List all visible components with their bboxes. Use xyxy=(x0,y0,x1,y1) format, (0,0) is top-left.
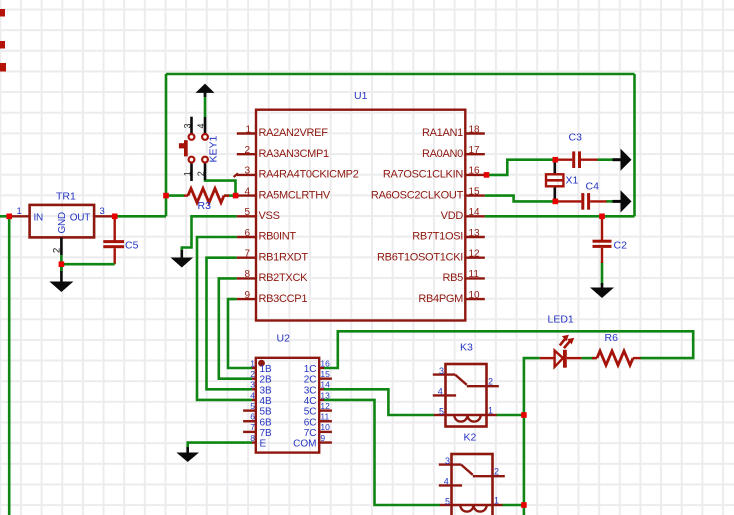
wire R3 row xyxy=(166,194,237,197)
U2 pin 1 input 1B xyxy=(250,358,272,375)
svg-text:1: 1 xyxy=(17,206,22,217)
svg-text:KEY1: KEY1 xyxy=(208,135,220,162)
U2 pin 12 output 5C xyxy=(304,401,332,418)
wire rail to LED xyxy=(524,358,540,515)
U1 pin 7 xyxy=(237,249,309,264)
ground symbol at VSS xyxy=(171,250,194,268)
svg-text:4: 4 xyxy=(444,477,449,487)
svg-text:4: 4 xyxy=(244,186,250,197)
svg-text:2: 2 xyxy=(494,467,499,477)
junction at K2 pin1 xyxy=(521,502,527,508)
svg-text:5: 5 xyxy=(439,407,444,417)
svg-text:2: 2 xyxy=(488,377,493,387)
svg-text:TR1: TR1 xyxy=(56,191,76,203)
svg-text:9: 9 xyxy=(244,290,250,301)
svg-text:8: 8 xyxy=(244,269,250,280)
supply arrow VCC at KEY1 xyxy=(196,84,215,117)
LED LED1 xyxy=(540,314,582,368)
U2 pin 6 input 6B xyxy=(243,412,272,429)
svg-text:2: 2 xyxy=(196,171,206,176)
U1 pin 10 xyxy=(418,290,484,305)
U1 pin 16 xyxy=(383,166,485,181)
svg-text:RA2AN2VREF: RA2AN2VREF xyxy=(259,127,329,139)
wire pin16 to oscillator row xyxy=(485,160,556,175)
svg-text:U1: U1 xyxy=(354,90,368,102)
svg-text:RB5: RB5 xyxy=(443,272,464,284)
svg-text:RA3AN3CMP1: RA3AN3CMP1 xyxy=(259,148,330,160)
svg-text:U2: U2 xyxy=(277,333,291,345)
svg-text:14: 14 xyxy=(469,207,481,218)
U1 pin 4 xyxy=(237,186,331,201)
wire LED R6 middle xyxy=(581,357,595,360)
svg-text:2: 2 xyxy=(244,145,250,156)
svg-text:RB6T1OSOT1CKI: RB6T1OSOT1CKI xyxy=(377,251,463,263)
svg-text:4: 4 xyxy=(196,123,206,128)
crystal X1 xyxy=(546,160,579,202)
wire VCC right rail vertical xyxy=(633,74,636,216)
svg-text:16: 16 xyxy=(320,358,330,368)
junction at TR1 ground xyxy=(59,261,65,267)
svg-text:IN: IN xyxy=(34,213,43,224)
svg-text:1: 1 xyxy=(245,124,251,135)
U2 pin 5 input 5B xyxy=(243,401,272,418)
wire RB0INT pin6 to U2 4B xyxy=(197,237,252,400)
svg-text:RA6OSC2CLKOUT: RA6OSC2CLKOUT xyxy=(371,189,464,201)
capacitor C3 xyxy=(556,132,598,169)
svg-text:5: 5 xyxy=(250,401,255,411)
svg-text:1: 1 xyxy=(250,358,255,368)
wire C4 to ground arrow xyxy=(606,200,614,203)
svg-text:6: 6 xyxy=(244,228,250,239)
svg-text:7C: 7C xyxy=(304,428,317,439)
junction at X1 top xyxy=(553,157,559,163)
wire U2 E pin to ground xyxy=(188,443,252,449)
svg-text:5C: 5C xyxy=(304,407,317,418)
ground symbol at U2 E xyxy=(176,447,199,462)
U1 pin 8 xyxy=(237,269,308,284)
junction at TR1 output C5 xyxy=(112,214,118,220)
svg-text:7B: 7B xyxy=(260,428,273,439)
U2 pin 8 enable E xyxy=(250,433,266,450)
svg-text:C2: C2 xyxy=(614,240,628,252)
wire KEY1 pin2 to pin4 junction xyxy=(205,180,236,196)
U2 pin 13 output 4C xyxy=(304,390,330,407)
svg-text:GND: GND xyxy=(57,212,68,233)
svg-text:RB2TXCK: RB2TXCK xyxy=(259,272,309,284)
ground arrow right at C3 xyxy=(613,149,632,171)
junction at VDD C2 xyxy=(599,214,605,220)
wire C3 to ground arrow xyxy=(597,158,614,161)
wire C2 bottom to ground xyxy=(601,262,604,285)
svg-text:11: 11 xyxy=(469,269,480,280)
wire VCC left rail vertical xyxy=(165,74,168,216)
wire U2 4C to K2 coil xyxy=(324,400,440,505)
svg-text:15: 15 xyxy=(320,369,330,379)
svg-text:4: 4 xyxy=(438,387,443,397)
U1 pin 11 xyxy=(443,269,485,284)
svg-text:13: 13 xyxy=(320,390,330,400)
edge fragment top-left 2 xyxy=(0,41,5,49)
U1 pin 13 xyxy=(412,228,485,243)
wire VDD pin14 horizontal xyxy=(485,215,635,218)
ground symbol at TR1 xyxy=(49,266,73,292)
wire TR1 input left xyxy=(0,215,10,218)
junction at R3 left xyxy=(163,193,169,199)
wire RB2TXCK pin8 to U2 2B xyxy=(219,278,252,378)
svg-text:3B: 3B xyxy=(260,385,273,396)
svg-text:C3: C3 xyxy=(569,132,583,144)
U1 pin 1 xyxy=(237,124,328,139)
svg-text:12: 12 xyxy=(469,249,481,260)
svg-text:2B: 2B xyxy=(260,375,273,386)
svg-text:1C: 1C xyxy=(304,364,317,375)
capacitor C5 xyxy=(61,217,138,264)
svg-text:5: 5 xyxy=(445,496,450,506)
wire U2 1C to R6 loop xyxy=(324,331,693,368)
svg-text:K3: K3 xyxy=(460,342,473,354)
wire VSS pin5 to ground xyxy=(182,216,237,251)
svg-text:3: 3 xyxy=(100,206,105,217)
svg-text:RB0INT: RB0INT xyxy=(259,231,297,243)
svg-text:2C: 2C xyxy=(304,375,317,386)
svg-text:X1: X1 xyxy=(566,175,579,187)
svg-text:7: 7 xyxy=(244,249,250,260)
U2 pin 7 input 7B xyxy=(243,422,272,439)
wire RB1RXDT pin7 to U2 3B xyxy=(207,258,253,390)
svg-text:7: 7 xyxy=(250,422,255,432)
svg-text:RB7T1OSI: RB7T1OSI xyxy=(412,231,463,243)
wire RB3CCP1 pin9 to U2 1B xyxy=(228,299,252,368)
wire K2 pin1 to rail xyxy=(502,504,524,507)
edge fragment top-left 1 xyxy=(0,9,5,17)
svg-text:RA7OSC1CLKIN: RA7OSC1CLKIN xyxy=(383,169,464,181)
svg-text:3: 3 xyxy=(445,456,450,466)
svg-text:LED1: LED1 xyxy=(548,314,574,326)
wire TR1 out to rail xyxy=(114,215,167,218)
svg-text:10: 10 xyxy=(469,290,481,301)
U1 pin 18 xyxy=(422,124,485,139)
junction at R3 right pin4 xyxy=(233,193,239,199)
wire VCC top rail horizontal xyxy=(166,73,635,76)
svg-text:6B: 6B xyxy=(260,417,273,428)
svg-text:K2: K2 xyxy=(464,432,477,444)
svg-text:1: 1 xyxy=(494,496,499,506)
svg-text:C4: C4 xyxy=(586,181,600,193)
U2 pin 10 output 7C xyxy=(304,422,332,439)
microcontroller U1 xyxy=(256,90,465,321)
svg-text:4C: 4C xyxy=(304,396,317,407)
svg-text:6: 6 xyxy=(250,412,255,422)
U1 pin 12 xyxy=(377,249,485,264)
ground arrow right at C4 xyxy=(613,190,632,212)
svg-text:10: 10 xyxy=(320,422,330,432)
svg-text:5: 5 xyxy=(244,207,250,218)
U2 pin 11 output 6C xyxy=(304,412,332,429)
svg-text:RB4PGM: RB4PGM xyxy=(418,293,463,305)
resistor R3 xyxy=(184,189,229,213)
svg-text:VDD: VDD xyxy=(441,210,464,222)
U2 pin 3 input 3B xyxy=(250,380,272,397)
svg-text:RA0AN0: RA0AN0 xyxy=(422,148,463,160)
junction at K3 pin1 xyxy=(521,412,527,418)
driver U2 xyxy=(256,333,319,453)
svg-text:3: 3 xyxy=(182,123,192,128)
svg-text:17: 17 xyxy=(469,145,481,156)
svg-text:4B: 4B xyxy=(260,396,273,407)
svg-text:18: 18 xyxy=(469,124,481,135)
U1 pin 17 xyxy=(422,145,485,160)
svg-text:E: E xyxy=(260,439,267,450)
svg-text:OUT: OUT xyxy=(70,213,90,224)
wire left edge vertical down xyxy=(8,216,11,515)
svg-text:RA5MCLRTHV: RA5MCLRTHV xyxy=(259,189,331,201)
svg-text:C5: C5 xyxy=(125,240,139,252)
svg-text:4: 4 xyxy=(250,390,255,400)
capacitor C4 xyxy=(556,181,607,210)
svg-text:6C: 6C xyxy=(304,417,317,428)
push button KEY1 xyxy=(179,117,220,181)
svg-text:RB1RXDT: RB1RXDT xyxy=(259,251,309,263)
svg-text:COM: COM xyxy=(293,439,316,450)
U1 pin 9 xyxy=(237,290,308,305)
U1 pin 3 xyxy=(234,166,359,181)
U2 pin 2 input 2B xyxy=(250,369,272,386)
ground symbol at C2 xyxy=(590,283,614,298)
capacitor C2 xyxy=(593,217,628,263)
junction at TR1 input xyxy=(6,214,12,220)
edge fragment top-left 3 xyxy=(0,63,6,72)
svg-text:RA1AN1: RA1AN1 xyxy=(422,127,463,139)
U2 pin 9 common COM xyxy=(293,433,332,450)
U2 pin 16 output 1C xyxy=(304,358,330,375)
svg-text:VSS: VSS xyxy=(259,210,280,222)
svg-text:3: 3 xyxy=(439,366,444,376)
svg-text:5B: 5B xyxy=(260,407,273,418)
svg-text:3C: 3C xyxy=(304,385,317,396)
voltage regulator TR1 xyxy=(9,191,113,272)
svg-text:3: 3 xyxy=(244,166,250,177)
svg-text:2: 2 xyxy=(52,248,63,253)
svg-text:1: 1 xyxy=(488,406,493,416)
svg-text:9: 9 xyxy=(320,433,325,443)
wire U2 3C to K3 coil xyxy=(324,389,434,415)
U1 pin 2 xyxy=(237,145,329,160)
relay K2 xyxy=(439,432,505,515)
svg-text:11: 11 xyxy=(320,412,329,422)
svg-text:RB3CCP1: RB3CCP1 xyxy=(259,293,308,305)
wire K3 pin1 to rail xyxy=(496,414,524,417)
svg-text:RA4RA4T0CKICMP2: RA4RA4T0CKICMP2 xyxy=(259,169,359,181)
junction at pin16 xyxy=(484,172,490,178)
svg-text:1: 1 xyxy=(182,171,192,176)
svg-text:R6: R6 xyxy=(605,332,619,344)
U1 pin 14 xyxy=(441,207,485,222)
U2 pin 14 output 3C xyxy=(304,380,330,397)
svg-text:2: 2 xyxy=(250,369,255,379)
svg-text:13: 13 xyxy=(469,228,481,239)
svg-text:3: 3 xyxy=(250,380,255,390)
U1 pin 15 xyxy=(371,186,485,201)
svg-text:1B: 1B xyxy=(260,364,273,375)
svg-text:15: 15 xyxy=(469,186,481,197)
svg-text:8: 8 xyxy=(250,433,255,443)
relay K3 xyxy=(433,342,499,427)
U2 pin 4 input 4B xyxy=(250,390,272,407)
U2 pin 15 output 2C xyxy=(304,369,332,386)
junction at X1 bottom xyxy=(553,199,559,205)
svg-text:14: 14 xyxy=(320,380,330,390)
U1 pin 5 xyxy=(237,207,280,222)
resistor R6 xyxy=(592,332,641,365)
svg-text:R3: R3 xyxy=(198,200,212,212)
svg-text:12: 12 xyxy=(320,401,330,411)
svg-text:16: 16 xyxy=(469,166,481,177)
wire pin15 to oscillator row xyxy=(485,196,556,202)
U1 pin 6 xyxy=(237,228,297,243)
